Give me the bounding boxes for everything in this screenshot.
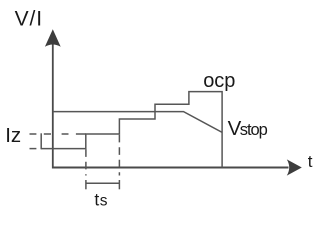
svg-text:ocp: ocp <box>203 70 235 92</box>
svg-text:Iz: Iz <box>5 124 21 147</box>
svg-text:t: t <box>94 190 99 210</box>
svg-text:stop: stop <box>240 121 268 139</box>
svg-text:s: s <box>100 193 108 210</box>
svg-text:t: t <box>308 152 313 171</box>
svg-text:V/I: V/I <box>15 8 43 31</box>
